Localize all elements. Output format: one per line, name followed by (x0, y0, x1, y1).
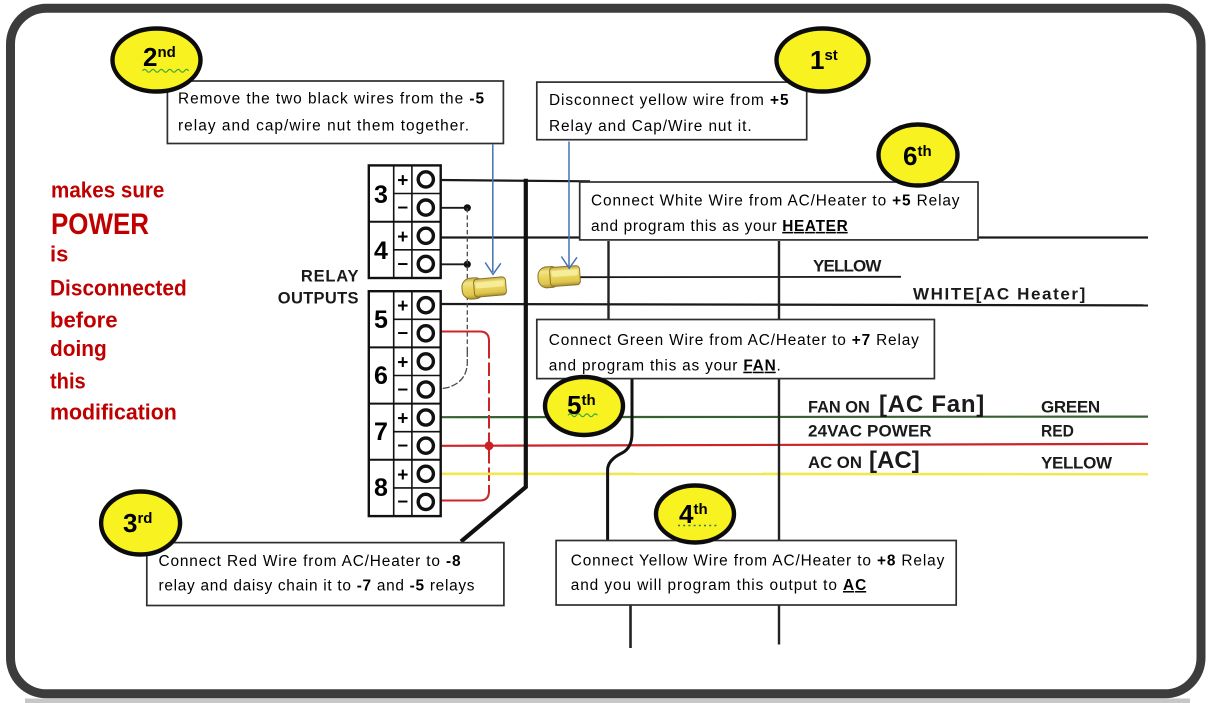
callout box: step 5 connect green wire (537, 320, 935, 379)
badge 5th (545, 377, 623, 435)
svg-text:FAN ON: FAN ON (808, 398, 870, 417)
wire nut 2 (caps yellow wire) (537, 265, 580, 289)
svg-text:6: 6 (374, 362, 388, 390)
callout box: step 1 disconnect yellow wire (537, 82, 807, 140)
svg-text:before: before (50, 308, 118, 333)
svg-text:and program this as your HEATE: and program this as your HEATER (591, 218, 848, 235)
wire: relay 7- red 24VAC POWER (440, 444, 1148, 446)
polarity signs block 5-8 (397, 296, 408, 512)
svg-text:8: 8 (374, 474, 388, 502)
svg-text:relay and daisy chain it to -7: relay and daisy chain it to -7 and -5 re… (159, 578, 475, 595)
badge 3rd (101, 492, 180, 555)
badge 1st (777, 29, 869, 92)
svg-text:+: + (397, 227, 408, 248)
arrow from step2 box to wire nut 1 (485, 144, 501, 274)
svg-text:relay and cap/wire nut them to: relay and cap/wire nut them together. (178, 117, 469, 134)
svg-text:–: – (398, 491, 409, 512)
wire: relay 7+ green FAN (440, 416, 1148, 419)
svg-text:RELAY: RELAY (301, 268, 359, 286)
svg-text:OUTPUTS: OUTPUTS (278, 290, 359, 308)
wire: relay 3+ to bus (440, 180, 590, 181)
arrow from step1 box to wire nut 2 (561, 142, 577, 269)
svg-text:–: – (398, 323, 409, 344)
terminal block relays 5-8 (369, 291, 441, 516)
terminal block relays 3-4 (369, 165, 441, 278)
svg-text:3: 3 (374, 181, 388, 209)
svg-text:+: + (397, 409, 408, 430)
svg-text:+: + (397, 170, 408, 191)
label AC ON [AC] YELLOW (808, 447, 1113, 474)
label 24VAC POWER RED (808, 421, 1074, 440)
svg-text:RED: RED (1041, 421, 1074, 440)
svg-text:24VAC POWER: 24VAC POWER (808, 421, 932, 440)
wire: relay 8+ yellow AC (440, 472, 1148, 475)
callout box: step 4 connect yellow wire (556, 541, 956, 606)
svg-text:modification: modification (50, 400, 177, 425)
label RELAY OUTPUTS (278, 268, 359, 308)
svg-text:WHITE[AC Heater]: WHITE[AC Heater] (913, 285, 1085, 304)
svg-text:this: this (50, 369, 86, 394)
wire: stub below 4th callout right (778, 605, 780, 645)
wire: vertical with jog from FAN callout to 4th callout (608, 378, 632, 542)
svg-text:+: + (397, 296, 408, 317)
wire: relay 3- stub (440, 207, 465, 209)
wire nut 1 (caps removed black wires) (461, 275, 507, 300)
warning text: makes sure POWER is Disconnected (50, 177, 187, 424)
badge 2nd (113, 29, 201, 92)
badge 4th (656, 486, 734, 543)
wire: relay 4+ long black to right (440, 236, 1148, 238)
svg-text:–: – (398, 253, 409, 274)
terminal circles block 5-8 (418, 298, 433, 510)
wire: vertical from HEATER callout down to FAN callout (607, 241, 609, 320)
svg-text:and program this as your FAN.: and program this as your FAN. (549, 358, 781, 375)
svg-text:POWER: POWER (51, 208, 149, 241)
svg-text:[AC Fan]: [AC Fan] (879, 391, 984, 418)
wire: relay 4- stub (440, 263, 465, 265)
svg-text:AC ON: AC ON (808, 453, 862, 472)
junction dot at 4- (464, 261, 471, 268)
wire: relay 5+ WHITE AC Heater (440, 304, 1148, 305)
svg-text:YELLOW: YELLOW (1041, 454, 1113, 473)
svg-text:+: + (397, 352, 408, 373)
wire: capped yellow wire from nut to right (578, 276, 901, 278)
svg-text:4: 4 (374, 237, 388, 265)
svg-text:YELLOW: YELLOW (813, 256, 882, 275)
svg-text:Connect Yellow Wire from AC/He: Connect Yellow Wire from AC/Heater to +8… (571, 553, 945, 570)
svg-text:–: – (398, 379, 409, 400)
callout box: step 2 remove black wires (167, 81, 503, 144)
polarity signs block 3-4 (397, 170, 408, 274)
svg-text:Connect White Wire from AC/Hea: Connect White Wire from AC/Heater to +5 … (591, 193, 960, 210)
svg-text:Disconnect yellow wire from +5: Disconnect yellow wire from +5 (549, 92, 789, 109)
svg-text:Remove the two black wires fro: Remove the two black wires from the -5 (178, 90, 484, 107)
svg-text:Connect Green Wire from AC/Hea: Connect Green Wire from AC/Heater to +7 … (549, 332, 919, 349)
svg-text:5: 5 (374, 306, 388, 334)
svg-text:doing: doing (50, 336, 107, 361)
svg-text:–: – (398, 197, 409, 218)
badge 6th (879, 125, 958, 186)
bus: thick black wire with diagonal to 3rd callout (461, 179, 526, 542)
callout box: step 6 connect white wire (580, 182, 978, 240)
svg-text:[AC]: [AC] (869, 447, 920, 474)
wire: removed black wires dashed down to relay 6- (466, 208, 468, 350)
junction dot red on 24VAC wire (485, 441, 494, 450)
svg-text:and you will program this outp: and you will program this output to AC (571, 577, 867, 594)
svg-text:+: + (397, 465, 408, 486)
svg-text:–: – (398, 435, 409, 456)
svg-text:is: is (50, 242, 68, 267)
wire: red daisy chain 5- to 8- (441, 332, 489, 346)
svg-text:Connect Red Wire from AC/Heate: Connect Red Wire from AC/Heater to -8 (159, 553, 461, 570)
wire: vertical from HEATER callout to 4th callout (778, 241, 780, 541)
terminal circles block 3-4 (418, 172, 433, 272)
svg-text:makes sure: makes sure (51, 177, 164, 202)
callout box: step 3 connect red wire (147, 543, 504, 606)
svg-text:Disconnected: Disconnected (50, 276, 187, 301)
junction dot at 3- (464, 204, 471, 211)
wire: stub below 4th callout left (629, 605, 632, 648)
svg-text:7: 7 (374, 418, 388, 446)
svg-text:GREEN: GREEN (1041, 398, 1100, 417)
svg-text:Relay and Cap/Wire nut it.: Relay and Cap/Wire nut it. (549, 118, 752, 135)
label FAN ON [AC Fan] GREEN (808, 391, 1100, 418)
